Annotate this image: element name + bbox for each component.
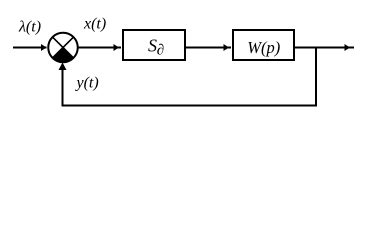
label: S with subscript — [148, 36, 164, 59]
node: summing junction (comparator) — [48, 33, 78, 63]
wire: feedback branch down from output node — [315, 48, 317, 107]
svg-text:y(t): y(t) — [75, 75, 99, 92]
svg-text:W(p): W(p) — [247, 38, 280, 57]
svg-text:λ(t): λ(t) — [18, 19, 41, 36]
svg-text:∂: ∂ — [157, 43, 164, 59]
wire: block S to block W — [186, 44, 231, 51]
wire: feedback up into summer with arrow — [59, 63, 67, 107]
wire: output line with arrow — [295, 44, 354, 51]
svg-text:S: S — [148, 36, 157, 56]
svg-text:x(t): x(t) — [83, 16, 106, 33]
wire: summer output to block S — [78, 44, 122, 51]
block W(p) (plant transfer function) — [233, 30, 294, 60]
block S_d (sensor element) — [123, 30, 185, 60]
wire: feedback bottom run — [62, 105, 318, 107]
wire: input lambda(t) into summer — [13, 44, 47, 51]
